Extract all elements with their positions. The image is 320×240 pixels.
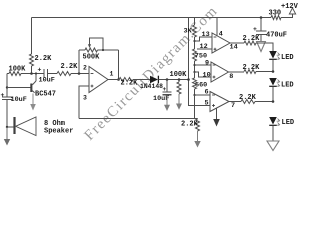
svg-text:+12V: +12V — [281, 3, 299, 11]
wire base — [7, 87, 30, 89]
wire tap to pin9 — [193, 64, 195, 66]
node collector resistor — [30, 72, 33, 75]
resistor R11 2.2K LED2 — [244, 70, 256, 74]
wiper of VR1 — [90, 38, 104, 50]
LED D3 — [269, 78, 277, 86]
wire op-amp1 output — [108, 79, 119, 81]
svg-text:LED: LED — [282, 119, 295, 127]
ground C4 — [260, 35, 262, 42]
ground R5 — [178, 94, 180, 104]
op-amp U1A — [89, 67, 108, 93]
svg-text:+: + — [1, 92, 5, 99]
resistor R12 2.2K LED3 — [241, 100, 255, 104]
svg-text:4: 4 — [219, 31, 223, 39]
capacitor C3 10uF filter — [166, 78, 169, 81]
ground LED chain — [272, 125, 274, 141]
svg-text:LED: LED — [281, 54, 294, 62]
svg-text:2.2K: 2.2K — [243, 64, 261, 72]
op-amp U1B pins 6 5 7 — [210, 92, 229, 112]
svg-text:5: 5 — [205, 100, 209, 108]
resistor R10 2.2K LED1 — [244, 41, 256, 45]
wire pin4 supply — [216, 18, 218, 36]
resistor R3 2.2K to op-amp — [57, 72, 71, 76]
wire rail drop to 2.2K collector resistor — [31, 18, 33, 55]
resistor R4 2.2K output — [119, 78, 133, 82]
resistor R5 100K bleed — [178, 78, 181, 81]
svg-text:2.2K: 2.2K — [239, 94, 257, 102]
resistor R7 750 ladder — [193, 49, 197, 61]
diode D1 1N4148 — [150, 76, 158, 84]
svg-text:2.2K: 2.2K — [61, 63, 79, 71]
svg-text:500K: 500K — [83, 54, 101, 62]
svg-text:1N4148: 1N4148 — [140, 83, 163, 90]
svg-text:330: 330 — [269, 10, 282, 18]
svg-text:2.2K: 2.2K — [243, 35, 261, 43]
wire left rail down — [6, 74, 8, 98]
svg-text:1: 1 — [110, 71, 114, 78]
svg-text:3K: 3K — [184, 28, 193, 36]
svg-text:10: 10 — [203, 71, 211, 79]
resistor R8 560 ladder — [193, 78, 197, 89]
svg-text:+: + — [253, 26, 257, 33]
LED D4 — [269, 117, 277, 125]
svg-text:2.2K: 2.2K — [35, 55, 53, 63]
svg-text:13: 13 — [202, 31, 210, 39]
speaker SPK1 8 Ohm — [7, 126, 13, 128]
capacitor C4 470uF — [260, 16, 263, 19]
svg-text:2: 2 — [83, 65, 87, 72]
wire pin3 to bottom line — [79, 86, 89, 119]
ground op-amp pin11 — [216, 108, 218, 119]
svg-text:BC547: BC547 — [35, 90, 56, 98]
svg-text:LED: LED — [281, 82, 294, 90]
svg-text:7: 7 — [231, 102, 235, 110]
wire pin12 — [197, 48, 212, 50]
svg-text:Speaker: Speaker — [44, 127, 73, 135]
transistor Q1 BC547 — [30, 84, 32, 93]
wire tap to pin13 — [193, 40, 195, 42]
svg-text:2.2K: 2.2K — [181, 121, 199, 129]
wire tap to pin6 — [194, 89, 196, 95]
op-amp U1C pins 9 10 8 — [211, 62, 229, 82]
resistor R2 2.2K collector — [30, 54, 34, 66]
svg-text:14: 14 — [230, 44, 238, 52]
ground emitter — [32, 94, 34, 105]
feedback wire to output — [118, 50, 120, 80]
wire signal bus — [189, 18, 211, 106]
wire tap to pin10 — [193, 71, 195, 73]
resistor 330 — [271, 15, 281, 19]
svg-text:100K: 100K — [170, 71, 188, 79]
svg-text:12: 12 — [200, 43, 208, 51]
+12V supply arrow — [289, 8, 295, 14]
node base — [6, 86, 8, 88]
svg-text:2.2K: 2.2K — [121, 80, 139, 88]
wire output 7 — [229, 101, 241, 103]
svg-text:10uF: 10uF — [11, 96, 27, 104]
svg-text:8: 8 — [229, 73, 233, 81]
resistor R6 3K ladder — [194, 18, 196, 26]
svg-text:10uF: 10uF — [39, 77, 55, 85]
LED D2 — [269, 51, 277, 59]
ground C3 — [166, 95, 168, 105]
ground ladder — [197, 131, 199, 141]
ground speaker — [6, 126, 8, 128]
svg-text:6: 6 — [205, 88, 209, 96]
op-amp U1D pins 13 12 14 — [212, 33, 230, 53]
svg-text:470uF: 470uF — [266, 32, 287, 40]
capacitor C1 10uF input coupling — [2, 97, 12, 100]
potentiometer VR1 500K feedback — [78, 50, 80, 74]
svg-text:9: 9 — [205, 59, 209, 67]
wire output 14 — [230, 42, 244, 44]
wire +12V rail — [32, 17, 272, 19]
svg-text:+: + — [163, 86, 167, 93]
svg-text:+: + — [38, 67, 42, 74]
wire bottom reference line — [79, 118, 198, 120]
wire output 8 — [229, 71, 245, 73]
svg-text:100K: 100K — [9, 66, 27, 74]
resistor R9 2.2K ladder bottom — [197, 118, 199, 121]
wire input line — [7, 73, 9, 75]
resistor R1 100K — [9, 72, 21, 76]
svg-text:3: 3 — [83, 95, 87, 102]
